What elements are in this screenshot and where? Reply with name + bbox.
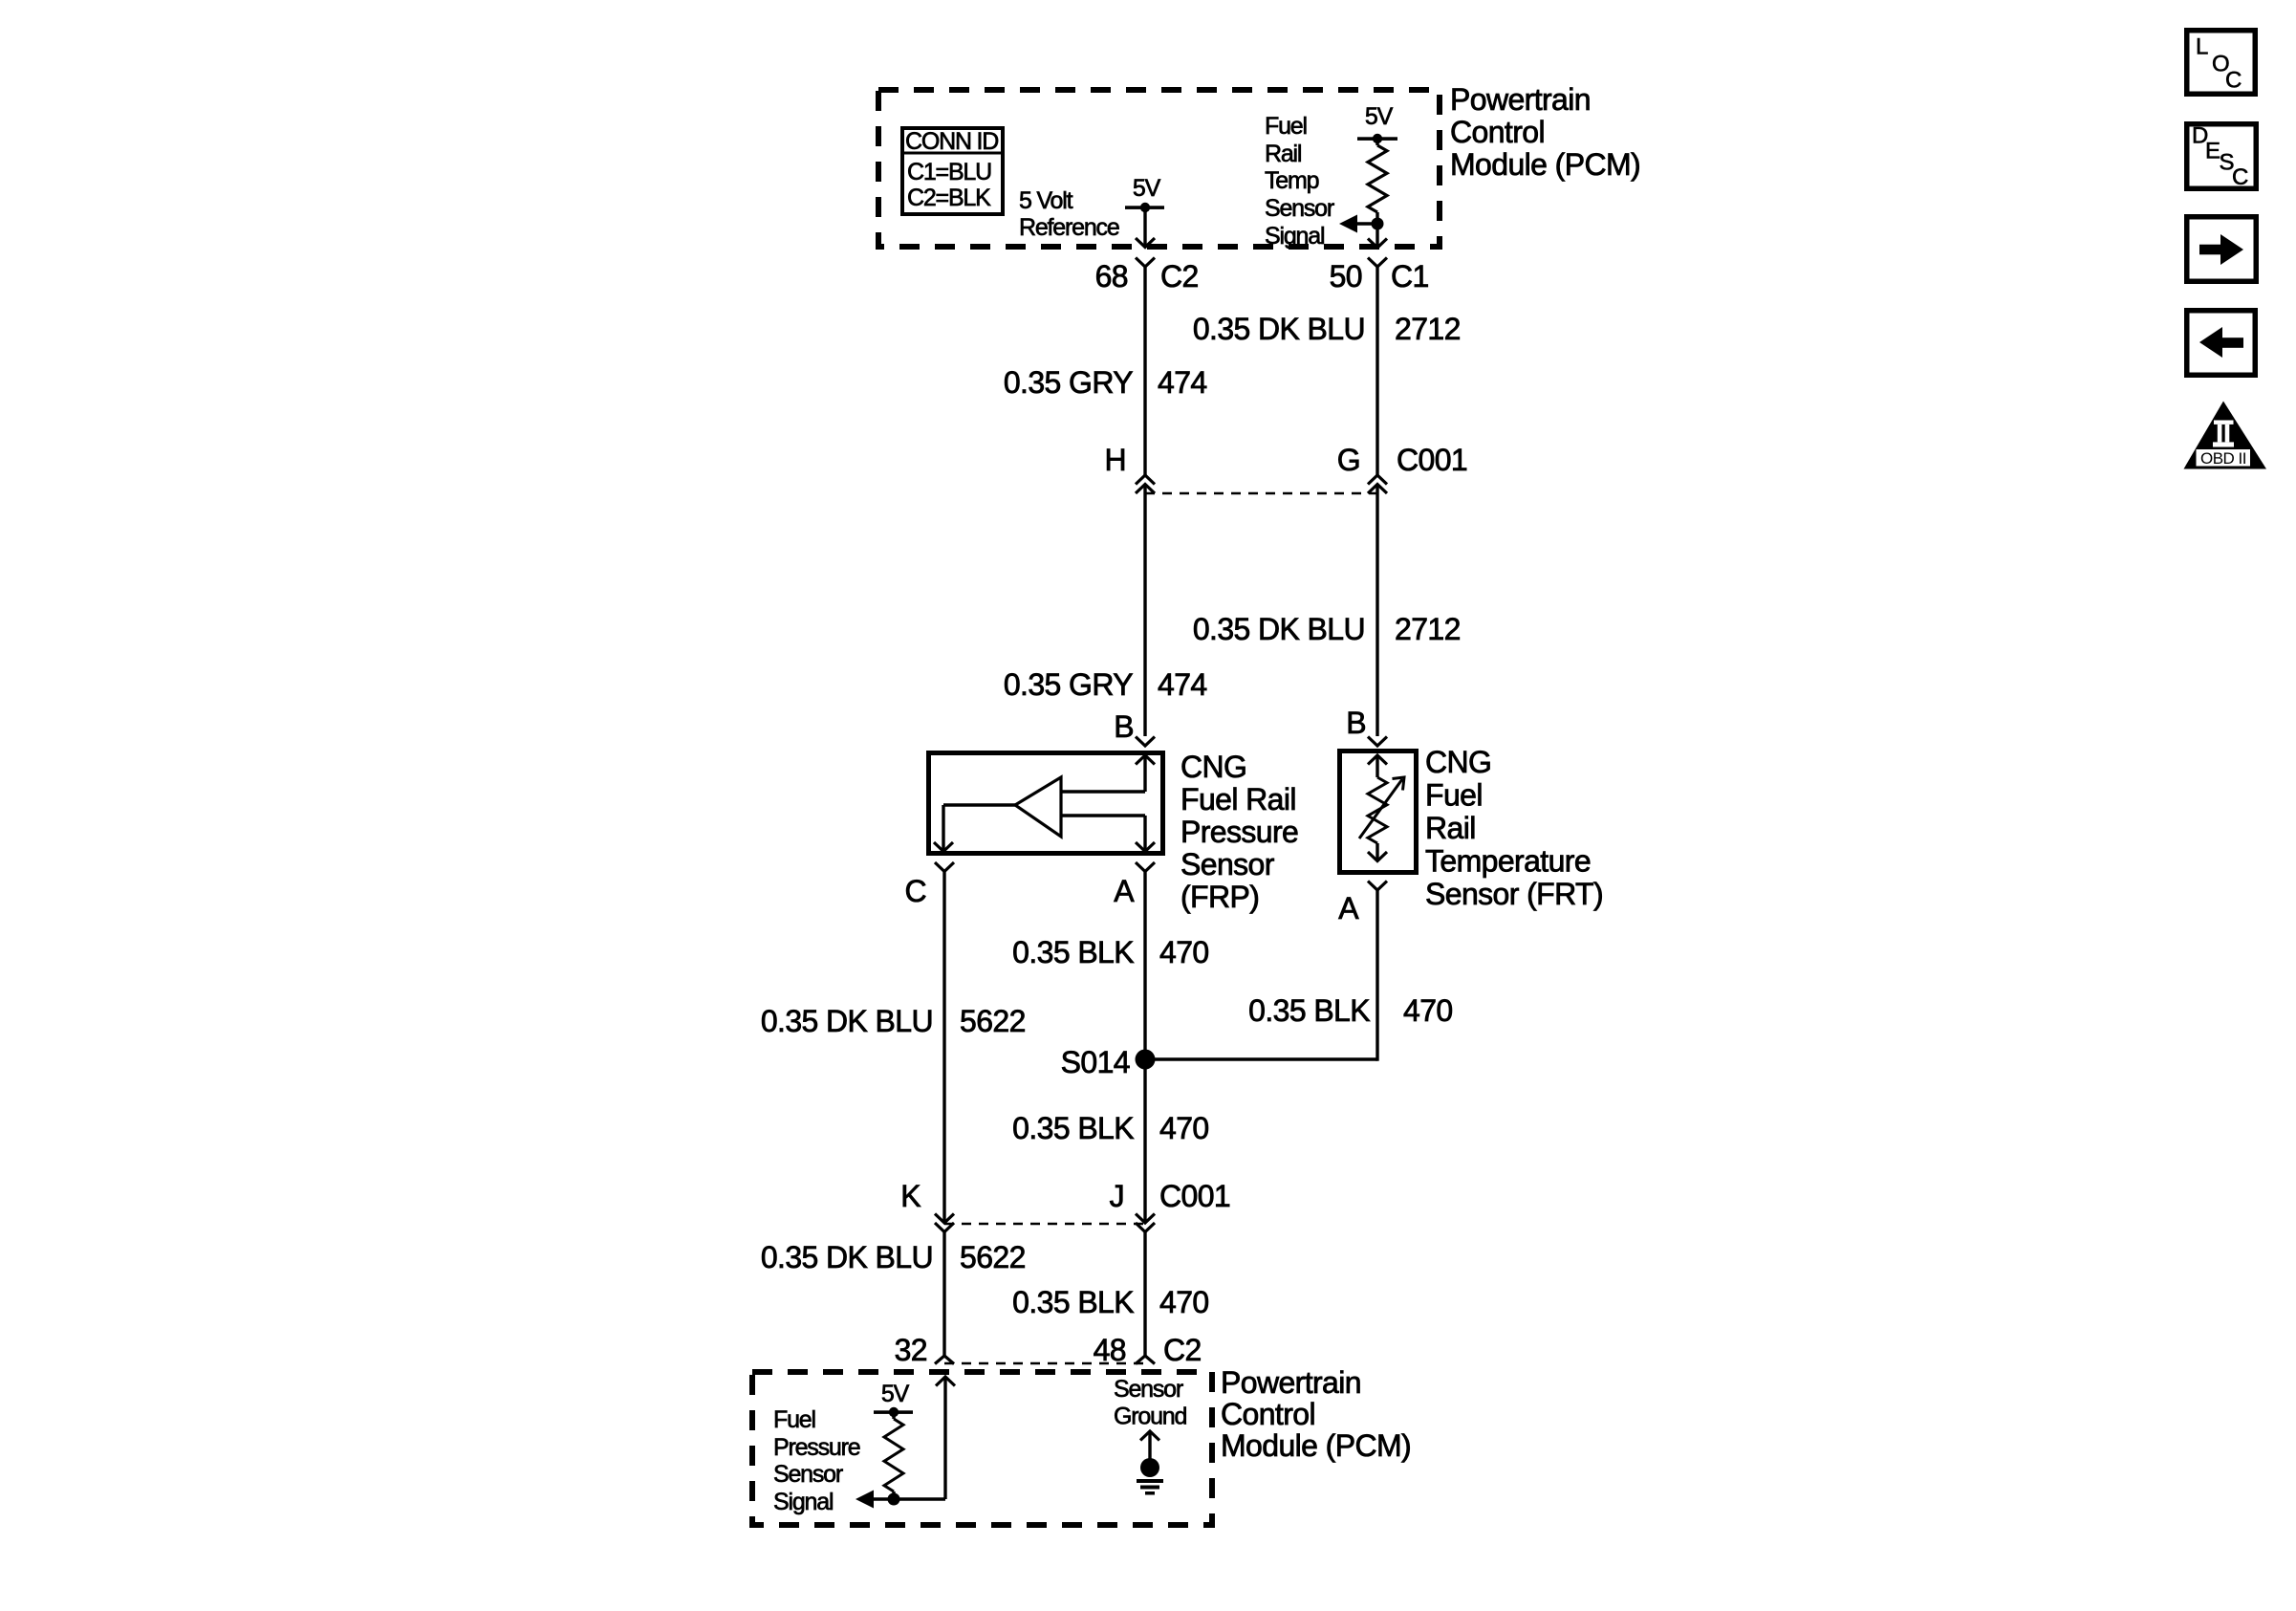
label 0.35 DK BLU 2712 (lower) [1193,612,1461,646]
svg-text:Fuel: Fuel [1425,778,1483,813]
FRP C output wire (in box) [934,805,1015,852]
FRP B pin wire (in box) [1061,755,1155,792]
icon DESC [2187,123,2257,191]
svg-text:C1: C1 [1391,259,1429,294]
svg-text:C2: C2 [1160,259,1199,294]
svg-text:C001: C001 [1159,1179,1230,1213]
svg-text:5V: 5V [1365,103,1394,130]
label 0.35 DK BLU 5622 (lower) [761,1240,1026,1274]
label 0.35 BLK 470 (FRT A) [1248,993,1452,1028]
svg-text:C001: C001 [1397,443,1467,477]
pin labels 68 C2 [1095,259,1199,294]
connector C001 lower: K arrow (down) [935,1214,954,1224]
connector C001 upper: H fork [1136,475,1155,485]
connector C001 labels H G [1104,443,1467,477]
svg-text:Temp: Temp [1265,167,1319,194]
svg-text:0.35 DK BLU: 0.35 DK BLU [1193,312,1365,346]
svg-text:48: 48 [1094,1333,1126,1367]
icon LOC [2187,31,2256,95]
FRT pin B fork [1368,737,1387,747]
label 0.35 BLK 470 (lower) [1012,1285,1208,1319]
pin 50 fork (female) [1368,258,1387,268]
connector C001 upper: G arrow (up) [1368,485,1387,494]
label Fuel Pressure Sensor Signal [773,1406,860,1515]
sensor ground symbol [1137,1431,1163,1495]
FRT signal arrow (left) [1339,215,1377,233]
fuel pressure signal arrow [856,1491,874,1509]
svg-text:Fuel: Fuel [1265,113,1307,140]
svg-text:474: 474 [1158,365,1207,400]
FRT pin A fork [1368,882,1387,891]
svg-text:A: A [1114,874,1135,908]
connector C001 lower: K fork [935,1223,954,1232]
icon OBD II [2184,402,2267,469]
pin label A (FRT) [1338,891,1359,925]
FRP pin A fork [1136,862,1155,872]
svg-text:Reference: Reference [1019,214,1119,241]
svg-text:A: A [1338,891,1359,925]
icon arrow left [2187,311,2256,376]
svg-text:Rail: Rail [1425,811,1476,845]
wire G to FRT B [1375,485,1378,737]
connector C001 lower dashed line [944,1223,1145,1226]
label 5 Volt Reference [1019,187,1119,241]
label 0.35 DK BLU 5622 (upper) [761,1004,1026,1038]
label CNG Fuel Rail Pressure Sensor (FRP) [1180,750,1298,914]
svg-text:32: 32 [895,1333,927,1367]
svg-text:J: J [1110,1179,1124,1213]
label Sensor Ground [1114,1376,1186,1430]
CNG Fuel Rail Pressure Sensor (FRP) box [929,753,1163,854]
svg-text:C: C [2225,68,2242,94]
5V supply (bottom) [874,1381,913,1417]
label Powertrain Control Module (PCM) bottom [1221,1365,1411,1463]
connector C001 upper dashed line [1145,492,1377,495]
pin row dashed line [944,1362,1145,1365]
junction dot (FRP signal) [888,1493,900,1506]
wire 50 to G [1375,267,1378,475]
svg-text:0.35 BLK: 0.35 BLK [1248,993,1370,1028]
wire FRT A down [1375,890,1378,1061]
svg-text:474: 474 [1158,667,1207,702]
svg-text:0.35 BLK: 0.35 BLK [1012,1111,1134,1145]
pin label A (FRP) [1114,874,1135,908]
svg-text:Fuel: Fuel [773,1406,815,1433]
pin label B (FRT) [1346,706,1366,740]
svg-text:Powertrain: Powertrain [1450,82,1591,117]
label 0.35 DK BLU 2712 (upper) [1193,312,1461,346]
pin 32 wire (in box) [872,1377,955,1499]
svg-text:K: K [900,1179,921,1213]
svg-text:Signal: Signal [773,1489,833,1515]
svg-text:68: 68 [1095,259,1128,294]
label 0.35 BLK 470 (FRP A) [1012,935,1208,969]
FRT thermistor (in box) [1359,755,1404,861]
svg-text:470: 470 [1159,1285,1209,1319]
svg-text:2712: 2712 [1395,312,1461,346]
junction dot (FRT signal) [1372,218,1384,230]
svg-text:5V: 5V [881,1381,910,1407]
svg-text:B: B [1114,709,1134,744]
pin 32 fork [935,1356,954,1364]
svg-text:Fuel Rail: Fuel Rail [1180,782,1296,816]
svg-text:5 Volt: 5 Volt [1019,187,1073,214]
label 0.35 BLK 470 (S014 to J) [1012,1111,1208,1145]
svg-text:5V: 5V [1133,175,1161,202]
splice S014 [1061,1045,1156,1079]
svg-text:S014: S014 [1061,1045,1130,1079]
resistor FRT pull-up [1368,139,1387,248]
svg-text:B: B [1346,706,1366,740]
pin label B (FRP) [1114,709,1134,744]
svg-text:CNG: CNG [1180,750,1246,784]
label Powertrain Control Module (PCM) top [1450,82,1640,182]
pin 68 fork (female) [1136,258,1155,268]
5V supply (left, pin 68) [1125,175,1164,212]
svg-text:(FRP): (FRP) [1180,880,1259,914]
svg-text:C: C [904,874,926,908]
wire S014 to J [1143,1059,1146,1223]
pin 48 fork [1136,1356,1155,1364]
svg-text:Control: Control [1450,115,1545,149]
svg-text:CONN ID: CONN ID [905,128,998,155]
PCM bottom box (dashed) [752,1372,1212,1525]
pin labels 50 C1 [1330,259,1429,294]
connector C001 upper: G fork [1368,475,1387,485]
svg-text:Sensor: Sensor [773,1461,843,1488]
FRP pin B fork [1136,737,1155,747]
svg-text:Powertrain: Powertrain [1221,1365,1361,1400]
svg-text:0.35 GRY: 0.35 GRY [1004,667,1133,702]
svg-text:0.35 BLK: 0.35 BLK [1012,1285,1134,1319]
connector C001 lower labels K J [900,1179,1230,1213]
svg-text:Rail: Rail [1265,141,1301,167]
svg-text:Module (PCM): Module (PCM) [1221,1428,1411,1463]
svg-text:C: C [2232,164,2248,190]
label Fuel Rail Temp Sensor Signal [1265,113,1334,250]
label 0.35 GRY 474 (upper) [1004,365,1207,400]
svg-text:L: L [2196,34,2208,60]
svg-text:C2=BLK: C2=BLK [907,185,991,211]
wire C to K [942,872,945,1224]
svg-text:Signal: Signal [1265,223,1324,250]
FRP pin C fork [935,862,954,872]
PCM top box (dashed) [878,90,1440,247]
svg-text:H: H [1104,443,1126,477]
svg-text:Sensor: Sensor [1180,847,1275,882]
wire A to S014 [1143,872,1146,1060]
wire 5V reference stub [1143,207,1146,248]
svg-text:Module (PCM): Module (PCM) [1450,147,1640,182]
svg-text:470: 470 [1159,1111,1209,1145]
5V supply (right, pin 50) [1357,103,1397,143]
label 0.35 GRY 474 (lower) [1004,667,1207,702]
svg-text:Ground: Ground [1114,1404,1186,1430]
wire 68 to H [1143,267,1146,475]
svg-text:50: 50 [1330,259,1362,294]
svg-text:Sensor (FRT): Sensor (FRT) [1425,877,1603,911]
svg-text:5622: 5622 [960,1240,1026,1274]
icon arrow right [2187,217,2257,282]
FRP A pin wire (in box) [1061,816,1155,852]
CONN ID table [902,128,1003,214]
svg-text:Sensor: Sensor [1114,1376,1183,1403]
svg-text:CNG: CNG [1425,745,1491,779]
svg-text:0.35 DK BLU: 0.35 DK BLU [761,1240,933,1274]
svg-text:0.35 DK BLU: 0.35 DK BLU [1193,612,1365,646]
connector C001 lower: J fork [1136,1223,1155,1232]
svg-text:OBD II: OBD II [2200,449,2246,468]
svg-text:G: G [1337,443,1360,477]
svg-text:Sensor: Sensor [1265,195,1334,222]
label CNG Fuel Rail Temperature Sensor (FRT) [1425,745,1603,911]
svg-text:Temperature: Temperature [1425,844,1591,879]
svg-text:2712: 2712 [1395,612,1461,646]
svg-text:0.35 BLK: 0.35 BLK [1012,935,1134,969]
op-amp triangle (FRP) [1015,777,1061,837]
svg-text:470: 470 [1403,993,1453,1028]
svg-text:C2: C2 [1163,1333,1202,1367]
svg-text:Control: Control [1221,1397,1315,1431]
svg-text:470: 470 [1159,935,1209,969]
connector C001 lower: J arrow (down) [1136,1214,1155,1224]
wire J to 48 [1143,1232,1146,1357]
svg-text:5622: 5622 [960,1004,1026,1038]
wire K to 32 [942,1232,945,1357]
pin label C [904,874,926,908]
pin 68 arrow (male, down) [1136,238,1155,248]
svg-text:0.35 GRY: 0.35 GRY [1004,365,1133,400]
svg-text:C1=BLU: C1=BLU [907,159,991,185]
pin 50 arrow (male, down) [1368,239,1387,249]
pin labels 32 48 C2 [895,1333,1202,1367]
resistor FRP pull-up [884,1412,903,1499]
svg-text:Pressure: Pressure [773,1434,860,1461]
svg-text:Pressure: Pressure [1180,815,1298,849]
CNG Fuel Rail Temperature Sensor (FRT) box [1340,751,1417,873]
svg-text:0.35 DK BLU: 0.35 DK BLU [761,1004,933,1038]
wire S014 to FRT A [1145,1057,1377,1060]
connector C001 upper: H arrow (up) [1136,485,1155,494]
wire H to FRP B [1143,485,1146,737]
